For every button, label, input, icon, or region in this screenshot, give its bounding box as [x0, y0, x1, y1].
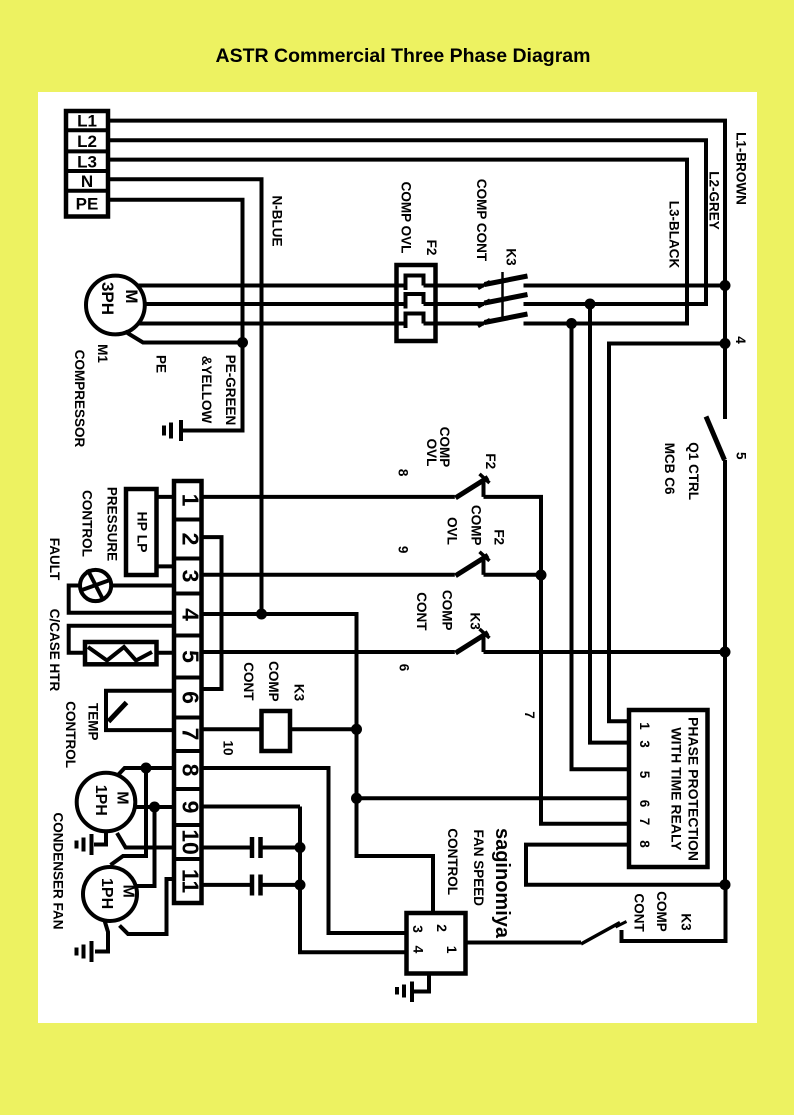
pin 4 [410, 946, 426, 954]
wire K3 out 1 [524, 284, 726, 288]
label K3 main [504, 248, 519, 266]
junction node 4 [720, 338, 731, 349]
terminal label N [81, 172, 93, 191]
label saginomiya [491, 828, 513, 939]
svg-text:8: 8 [637, 840, 652, 848]
wire lamp left loop [69, 586, 174, 613]
junction coil rail [351, 724, 362, 735]
terminal 7 [178, 728, 204, 741]
label TEMP [86, 703, 101, 741]
label MCB C6 [662, 443, 677, 495]
label L3-BLACK [667, 201, 682, 269]
svg-text:HP LP: HP LP [134, 512, 150, 553]
wire t8 drop to fan2 [111, 768, 147, 865]
label OVL sw9 [445, 517, 460, 545]
label COMP bottom [654, 891, 669, 932]
label CONT bottom [632, 893, 647, 932]
wire 7 drop [541, 575, 629, 824]
label COMP sw6 [439, 590, 454, 631]
junction t8 [141, 763, 152, 774]
svg-text:saginomiya: saginomiya [491, 828, 513, 939]
terminal 5 [178, 650, 204, 663]
label L2-GREY [707, 171, 722, 230]
svg-text:CONT: CONT [632, 893, 647, 932]
switch F2-8 blade [456, 474, 490, 498]
label CONT sw6 [414, 592, 429, 631]
wire t2 bypass t6 [202, 537, 222, 689]
svg-text:COMP CONT: COMP CONT [474, 179, 489, 262]
switch F2-9 blade [456, 552, 490, 576]
crankcase heater [85, 642, 157, 664]
wire hp-lp top [157, 495, 175, 499]
relay pin 1 [637, 722, 652, 730]
label 6 [397, 664, 412, 672]
wire hp-lp bottom [157, 564, 175, 568]
label 10 [220, 740, 235, 755]
svg-text:6: 6 [637, 800, 652, 808]
wire t3 to sw9 [202, 573, 455, 577]
terminal label L3 [77, 152, 97, 171]
wire motor PE stub [125, 332, 243, 343]
terminal 10 [178, 829, 204, 855]
svg-text:PE: PE [76, 195, 99, 214]
wire rail to relay6 [357, 796, 630, 800]
junction cap2 [295, 879, 306, 890]
white drawing area [38, 92, 757, 1023]
svg-text:PRESSURE: PRESSURE [105, 487, 120, 561]
svg-text:8: 8 [396, 469, 411, 477]
svg-text:COMP: COMP [654, 891, 669, 932]
svg-text:PHASE PROTECTION: PHASE PROTECTION [686, 717, 702, 861]
wire t10 right [202, 846, 251, 850]
junction wire2 [585, 299, 596, 310]
label K3 bottom [678, 913, 693, 931]
motor fan2 circle [83, 867, 137, 921]
contactor K3 link [501, 272, 504, 321]
svg-text:PE-GREEN: PE-GREEN [223, 355, 238, 426]
svg-text:L1: L1 [77, 112, 97, 131]
svg-text:K3: K3 [291, 684, 306, 702]
svg-text:3PH: 3PH [98, 282, 117, 315]
svg-text:K3: K3 [678, 913, 693, 931]
svg-text:5: 5 [178, 650, 204, 663]
motor M1 circle [86, 276, 145, 335]
svg-text:4: 4 [178, 608, 204, 621]
svg-text:M: M [119, 885, 136, 898]
svg-text:CONTROL: CONTROL [80, 490, 95, 557]
svg-text:1: 1 [444, 946, 460, 954]
svg-text:9: 9 [178, 801, 204, 814]
wire sw6 out [484, 650, 726, 654]
terminal 11 [178, 869, 204, 894]
wire fan box ground [414, 974, 430, 992]
svg-text:3: 3 [410, 925, 426, 933]
wire K3 out 3 tail [524, 322, 688, 326]
junction relay8 Q1 [720, 879, 731, 890]
svg-text:L2: L2 [77, 132, 97, 151]
label L1-BROWN [734, 132, 749, 205]
wire cap2 out [263, 883, 301, 887]
wire K3 comp out [622, 885, 726, 941]
wire t11 right [202, 883, 251, 887]
svg-text:F2: F2 [483, 453, 498, 469]
terminal label L2 [77, 132, 97, 151]
label COMP coil [266, 661, 281, 702]
motor fan1 circle [77, 773, 136, 832]
label M1 [95, 344, 110, 363]
label PRESSURE [105, 487, 120, 561]
label OVL sw8 [424, 439, 439, 467]
label COMP sw9 [469, 505, 484, 546]
wire motor phase 2 [145, 302, 397, 306]
relay pin 5 [637, 771, 652, 779]
junction cap1 [295, 842, 306, 853]
svg-text:WITH TIME REALY: WITH TIME REALY [668, 727, 684, 851]
svg-text:L3: L3 [77, 152, 97, 171]
label COMP CONT main [474, 179, 489, 262]
terminal strip 1-11 [174, 481, 202, 903]
svg-text:6: 6 [397, 664, 412, 672]
label F2 sw8 [483, 453, 498, 469]
svg-text:C/CASE HTR: C/CASE HTR [47, 609, 62, 692]
label K3 coil [291, 684, 306, 702]
terminal 8 [178, 764, 204, 777]
svg-text:5: 5 [637, 771, 652, 779]
svg-text:9: 9 [396, 546, 411, 554]
svg-text:3: 3 [637, 740, 652, 748]
svg-text:4: 4 [733, 336, 748, 344]
svg-text:OVL: OVL [424, 439, 439, 467]
junction L1 contact [720, 280, 731, 291]
svg-text:7: 7 [178, 728, 204, 741]
svg-text:L2-GREY: L2-GREY [707, 171, 722, 230]
wire node4 to relay1 [609, 344, 725, 722]
contactor K3 pole 1 [436, 276, 528, 289]
wire coil to rail [290, 727, 357, 731]
label M fan2 [98, 878, 137, 909]
wire t4 neutral rail [202, 614, 357, 798]
label HP LP [134, 512, 150, 553]
svg-text:COMP: COMP [266, 661, 281, 702]
junction wire3 [566, 318, 577, 329]
junction PE [237, 337, 248, 348]
wire t1 to sw8 [202, 495, 455, 499]
label CONT coil [241, 662, 256, 701]
label F2 sw9 [491, 529, 506, 545]
coil K3 [262, 711, 291, 751]
wire Q1 upper [723, 286, 727, 420]
label COMP OVL [399, 182, 414, 254]
svg-text:COMP: COMP [439, 590, 454, 631]
wire relay3 drop [590, 304, 629, 743]
wire t8 right [202, 768, 407, 933]
switch K3-6 blade [456, 629, 490, 653]
terminal label L1 [77, 112, 97, 131]
capacitor C2 [252, 875, 261, 896]
wire t8 left [118, 768, 175, 776]
svg-text:1: 1 [637, 722, 652, 730]
svg-text:7: 7 [637, 818, 652, 826]
label PE-GREEN [223, 355, 238, 426]
svg-text:&YELLOW: &YELLOW [199, 356, 214, 424]
svg-text:FAN SPEED: FAN SPEED [471, 830, 486, 907]
pin 3 [410, 925, 426, 933]
temp switch blade [109, 703, 127, 722]
svg-text:2: 2 [178, 533, 204, 546]
junction rail relay6 [351, 793, 362, 804]
terminal label PE [76, 195, 99, 214]
svg-text:F2: F2 [424, 240, 439, 256]
wire relay5 drop [572, 324, 630, 770]
overload relay F2 [397, 265, 436, 341]
wire N [108, 179, 262, 614]
svg-text:4: 4 [410, 946, 426, 954]
svg-text:M: M [122, 289, 141, 303]
label &YELLOW [199, 356, 214, 424]
svg-text:M1: M1 [95, 344, 110, 363]
svg-text:1PH: 1PH [98, 878, 115, 909]
svg-text:M: M [113, 791, 130, 804]
wire relay8 out [526, 845, 725, 885]
label C/CASE HTR [47, 609, 62, 692]
junction t9 [149, 802, 160, 813]
label WITH TIME REALY [668, 727, 684, 851]
wire PE [108, 200, 243, 431]
svg-text:COMPRESSOR: COMPRESSOR [72, 350, 87, 448]
label PHASE PROTECTION [686, 717, 702, 861]
ground fan control [397, 982, 412, 1003]
wire sw9 out [484, 573, 542, 577]
label CONTROL pressure [80, 490, 95, 557]
svg-text:Q1 CTRL: Q1 CTRL [686, 442, 701, 500]
wire t10 left [117, 833, 174, 848]
svg-text:6: 6 [178, 691, 204, 704]
switch K3 comp blade [581, 922, 627, 945]
wire temp top [106, 691, 174, 730]
fault lamp [80, 570, 111, 602]
relay pin 7 [637, 818, 652, 826]
wire motor phase 1 [138, 284, 397, 288]
wire fan2 ground stub [95, 921, 108, 952]
wire motor phase 3 [138, 322, 397, 326]
wire Q1 lower [723, 460, 727, 885]
svg-text:3: 3 [178, 570, 204, 583]
wire L1 [108, 121, 725, 286]
wire t7 to coil [202, 727, 262, 731]
svg-text:10: 10 [178, 829, 204, 855]
wire t5 to sw6 [202, 650, 455, 654]
wire rail to fan relay [357, 798, 434, 913]
label K3 sw6 [468, 612, 483, 630]
terminal 1 [178, 494, 204, 507]
svg-text:1: 1 [178, 494, 204, 507]
pin 2 [434, 924, 450, 932]
wire t9 drop to fan2 [136, 807, 155, 886]
label COMPRESSOR [72, 350, 87, 448]
ground fan1 [77, 834, 92, 855]
label CONDENSER FAN [51, 812, 66, 929]
svg-text:K3: K3 [468, 612, 483, 630]
svg-text:5: 5 [734, 452, 749, 460]
contactor K3 pole 3 [436, 314, 528, 327]
label FAN SPEED [471, 830, 486, 907]
svg-text:K3: K3 [504, 248, 519, 266]
wire fan1 ground stub [94, 831, 106, 844]
label COMP sw8 [437, 427, 452, 468]
label Q1 CTRL [686, 442, 701, 500]
label CONTROL fan [445, 828, 460, 895]
terminal 2 [178, 533, 204, 546]
svg-text:OVL: OVL [445, 517, 460, 545]
ground PE [164, 420, 181, 441]
terminal block L1-PE [66, 111, 108, 217]
junction sw6 Q1 [720, 647, 731, 658]
label F2 [424, 240, 439, 256]
relay pin 6 [637, 800, 652, 808]
svg-text:PE: PE [154, 355, 169, 373]
svg-text:MCB C6: MCB C6 [662, 443, 677, 495]
breaker Q1 blade [706, 417, 725, 461]
svg-text:10: 10 [220, 740, 235, 755]
label 4 [733, 336, 748, 344]
ground fan2 [77, 941, 92, 962]
wire t9 right [202, 805, 301, 809]
svg-text:11: 11 [178, 869, 204, 894]
relay pin 3 [637, 740, 652, 748]
pin 1 [444, 946, 460, 954]
terminal 3 [178, 570, 204, 583]
svg-text:L1-BROWN: L1-BROWN [734, 132, 749, 205]
svg-text:CONTROL: CONTROL [445, 828, 460, 895]
svg-text:CONDENSER FAN: CONDENSER FAN [51, 812, 66, 929]
wire sw8 out [484, 497, 542, 575]
relay pin 8 [637, 840, 652, 848]
label PE [154, 355, 169, 373]
svg-text:ASTR Commercial Three Phase Di: ASTR Commercial Three Phase Diagram [216, 45, 591, 67]
label 5 [734, 452, 749, 460]
title [216, 45, 591, 67]
wire heater right [157, 651, 175, 655]
svg-text:COMP: COMP [469, 505, 484, 546]
svg-text:N: N [81, 172, 93, 191]
terminal 4 [178, 608, 204, 621]
svg-text:CONT: CONT [241, 662, 256, 701]
label N-BLUE [270, 196, 285, 247]
pressure control box [126, 489, 157, 575]
phase relay box [629, 710, 708, 867]
svg-text:1PH: 1PH [92, 785, 109, 816]
terminal 6 [178, 691, 204, 704]
svg-text:8: 8 [178, 764, 204, 777]
svg-text:2: 2 [434, 924, 450, 932]
svg-text:F2: F2 [491, 529, 506, 545]
contactor K3 pole 2 [436, 295, 528, 308]
svg-text:7: 7 [522, 711, 537, 719]
wire cap1 out [263, 846, 301, 850]
svg-text:COMP OVL: COMP OVL [399, 182, 414, 254]
wire lamp right [111, 584, 174, 588]
wire t9 left [135, 805, 174, 809]
label FAULT [47, 538, 62, 581]
fan speed control box [407, 913, 466, 974]
label 8 [396, 469, 411, 477]
junction sw out [536, 570, 547, 581]
wire cap rail [300, 807, 407, 953]
wire L2 [108, 140, 706, 304]
svg-text:CONTROL: CONTROL [63, 701, 78, 768]
terminal 9 [178, 801, 204, 814]
wire heater left loop [69, 626, 174, 653]
label M 3PH [98, 282, 141, 315]
junction N rail [256, 609, 267, 620]
capacitor C1 [252, 837, 261, 858]
label M fan1 [92, 785, 131, 816]
svg-text:TEMP: TEMP [86, 703, 101, 741]
wire L3 [108, 160, 687, 324]
label 9 [396, 546, 411, 554]
label CONTROL temp [63, 701, 78, 768]
label 7 [522, 711, 537, 719]
svg-text:L3-BLACK: L3-BLACK [667, 201, 682, 269]
svg-text:FAULT: FAULT [47, 538, 62, 581]
svg-text:CONT: CONT [414, 592, 429, 631]
wire t11 left loop [120, 879, 175, 934]
wire pin1 out [466, 941, 582, 945]
svg-text:N-BLUE: N-BLUE [270, 196, 285, 247]
